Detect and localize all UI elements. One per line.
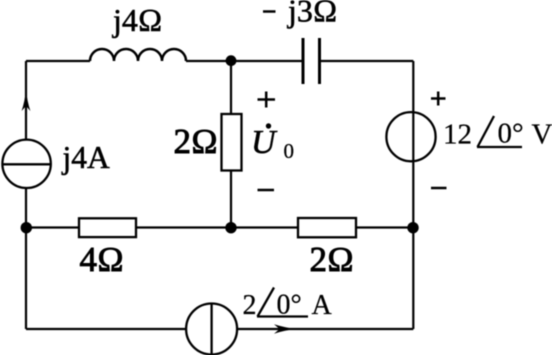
current source I1 bar (2, 163, 50, 165)
wire middle vertical upper (230, 61, 232, 114)
wire middle horizontal center (136, 226, 298, 228)
wire middle vertical lower (230, 171, 232, 228)
svg-text:12: 12 (443, 119, 472, 151)
svg-text:0°: 0° (498, 118, 524, 150)
svg-text:0°: 0° (277, 290, 302, 321)
voltage source U1 (12∠0°V) circle (386, 112, 435, 161)
wire top-left horizontal (26, 60, 90, 62)
resistor R2 4Ω box (79, 218, 136, 237)
label - of voltage source (431, 187, 447, 190)
wire left vertical upper (25, 61, 27, 140)
svg-text:2: 2 (243, 290, 257, 321)
resistor R3 2Ω box (bottom branch) (298, 218, 356, 237)
svg-text:j4Ω: j4Ω (112, 2, 162, 38)
svg-text:0: 0 (284, 139, 295, 163)
label - of U0 (258, 189, 275, 192)
wire middle horizontal left (26, 226, 79, 228)
wire left vertical lower (25, 188, 27, 329)
svg-text:4Ω: 4Ω (80, 240, 124, 279)
dot above U0 (266, 123, 271, 128)
wire bottom left (26, 328, 187, 330)
wire top-right (321, 60, 413, 62)
current source I1 (j4A) circle (2, 140, 50, 188)
node D junction dot right (407, 222, 418, 233)
svg-text:j3Ω: j3Ω (287, 0, 337, 29)
wire right vertical (412, 61, 414, 329)
node B junction dot left (21, 222, 32, 233)
arrow right on bottom wire (274, 324, 295, 333)
svg-text:2Ω: 2Ω (310, 240, 354, 279)
node A junction dot top-middle (226, 55, 237, 66)
svg-text:A: A (312, 290, 333, 321)
capacitor C (-j3Ω) right plate (318, 38, 321, 84)
wire top-middle (186, 60, 302, 62)
angle symbol of 12∠0° (477, 116, 522, 147)
label + of voltage source (431, 92, 446, 106)
svg-text:2Ω: 2Ω (174, 122, 218, 161)
angle symbol of 2∠0° (257, 288, 308, 317)
inductor L j4Ω (90, 49, 186, 61)
label + of U0 (258, 92, 276, 108)
label minus of -j3Ω (263, 10, 276, 13)
current source I2 (2∠0°A) circle (186, 304, 237, 355)
current source I2 bar (210, 304, 212, 355)
svg-text:V: V (532, 119, 552, 151)
svg-text:U: U (251, 124, 278, 161)
node C junction dot middle (225, 222, 236, 233)
capacitor C (-j3Ω) left plate (302, 38, 305, 84)
arrow up of current source j4A (22, 90, 31, 111)
wire middle horizontal right (356, 226, 413, 228)
svg-text:j4A: j4A (62, 140, 111, 175)
wire bottom right (237, 328, 413, 330)
resistor R1 2Ω box (vertical) (222, 114, 242, 171)
